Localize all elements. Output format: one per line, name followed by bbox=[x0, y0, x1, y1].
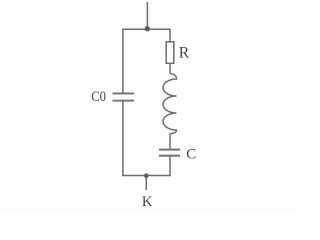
svg-text:C: C bbox=[186, 146, 196, 162]
svg-text:C0: C0 bbox=[91, 89, 106, 105]
svg-text:R: R bbox=[179, 45, 190, 62]
svg-text:K: K bbox=[142, 194, 153, 210]
